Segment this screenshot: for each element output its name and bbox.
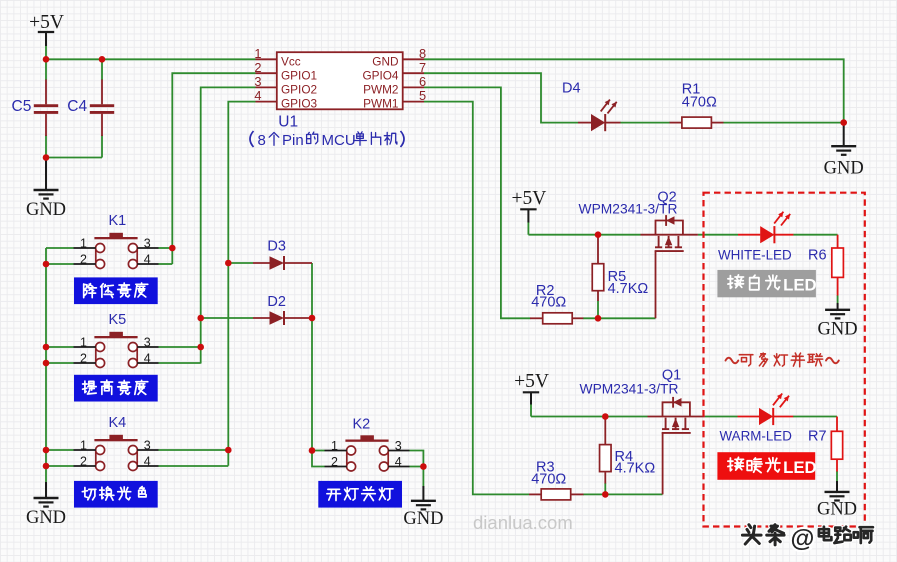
svg-text:2: 2 bbox=[254, 60, 261, 75]
svg-text:K5: K5 bbox=[109, 312, 127, 328]
svg-text:2: 2 bbox=[331, 455, 338, 469]
svg-text:8: 8 bbox=[419, 46, 426, 61]
svg-text:3: 3 bbox=[144, 335, 151, 349]
svg-text:D2: D2 bbox=[267, 294, 286, 310]
svg-text:3: 3 bbox=[144, 438, 151, 452]
svg-text:GPIO3: GPIO3 bbox=[281, 97, 317, 111]
svg-text:GND: GND bbox=[26, 508, 66, 528]
svg-text:D3: D3 bbox=[267, 239, 286, 255]
svg-text:GND: GND bbox=[403, 509, 443, 529]
svg-text:1: 1 bbox=[80, 438, 87, 452]
svg-text:WPM2341-3/TR: WPM2341-3/TR bbox=[580, 382, 679, 397]
svg-text:LED: LED bbox=[783, 458, 817, 477]
svg-text:1: 1 bbox=[254, 46, 261, 61]
svg-text:GND: GND bbox=[818, 319, 858, 339]
svg-text:C4: C4 bbox=[67, 98, 87, 115]
svg-text:3: 3 bbox=[254, 74, 261, 89]
svg-text:PWM2: PWM2 bbox=[363, 83, 398, 97]
svg-text:+5V: +5V bbox=[514, 371, 549, 392]
svg-text:4: 4 bbox=[254, 88, 261, 103]
svg-text:K4: K4 bbox=[109, 415, 127, 431]
svg-text:WHITE-LED: WHITE-LED bbox=[718, 248, 792, 263]
svg-text:470Ω: 470Ω bbox=[682, 94, 717, 110]
svg-text:2: 2 bbox=[80, 351, 87, 365]
svg-text:GND: GND bbox=[26, 200, 66, 220]
svg-text:4: 4 bbox=[144, 351, 151, 365]
svg-text:GND: GND bbox=[372, 54, 398, 68]
svg-text:4: 4 bbox=[144, 454, 151, 468]
svg-text:470Ω: 470Ω bbox=[531, 295, 566, 311]
svg-text:GPIO2: GPIO2 bbox=[281, 83, 317, 97]
svg-text:1: 1 bbox=[80, 335, 87, 349]
svg-text:470Ω: 470Ω bbox=[531, 471, 566, 487]
svg-text:2: 2 bbox=[80, 252, 87, 266]
svg-text:U1: U1 bbox=[278, 113, 298, 130]
svg-text:1: 1 bbox=[80, 236, 87, 250]
svg-text:GND: GND bbox=[824, 159, 864, 179]
svg-text:+5V: +5V bbox=[511, 188, 546, 209]
svg-text:WARM-LED: WARM-LED bbox=[720, 429, 793, 444]
svg-text:dianlua.com: dianlua.com bbox=[473, 512, 573, 533]
svg-text:MCU: MCU bbox=[322, 132, 356, 149]
svg-text:LED: LED bbox=[783, 276, 817, 295]
svg-text:8: 8 bbox=[258, 132, 266, 149]
svg-text:4.7KΩ: 4.7KΩ bbox=[615, 461, 656, 477]
svg-text:Pin: Pin bbox=[282, 132, 304, 149]
svg-text:3: 3 bbox=[144, 236, 151, 250]
svg-text:WPM2341-3/TR: WPM2341-3/TR bbox=[579, 201, 678, 216]
svg-text:+5V: +5V bbox=[29, 12, 64, 33]
svg-text:GND: GND bbox=[817, 499, 857, 519]
svg-text:3: 3 bbox=[395, 439, 402, 453]
svg-text:Vcc: Vcc bbox=[281, 54, 301, 68]
svg-text:4.7KΩ: 4.7KΩ bbox=[608, 281, 649, 297]
svg-text:4: 4 bbox=[144, 252, 151, 266]
svg-text:C5: C5 bbox=[12, 98, 32, 115]
svg-text:4: 4 bbox=[395, 455, 402, 469]
svg-text:GPIO4: GPIO4 bbox=[362, 68, 398, 82]
svg-text:PWM1: PWM1 bbox=[363, 97, 398, 111]
svg-text:@: @ bbox=[791, 526, 815, 553]
svg-text:K1: K1 bbox=[109, 213, 127, 229]
svg-text:R7: R7 bbox=[808, 429, 827, 445]
svg-text:1: 1 bbox=[331, 439, 338, 453]
svg-text:7: 7 bbox=[419, 60, 426, 75]
svg-text:5: 5 bbox=[419, 88, 426, 103]
svg-text:6: 6 bbox=[419, 74, 426, 89]
svg-text:K2: K2 bbox=[353, 416, 371, 432]
svg-text:GPIO1: GPIO1 bbox=[281, 68, 317, 82]
svg-text:R6: R6 bbox=[808, 248, 827, 264]
svg-text:D4: D4 bbox=[562, 80, 581, 96]
svg-text:2: 2 bbox=[80, 454, 87, 468]
